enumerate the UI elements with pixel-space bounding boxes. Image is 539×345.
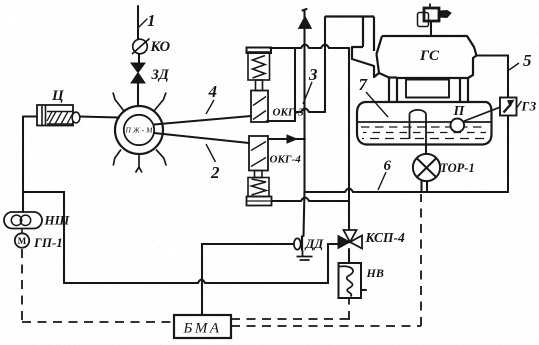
wire engine feed pipe — [324, 17, 326, 112]
leader 1 — [139, 19, 147, 27]
wire line B from OKG-4 base with hop — [272, 198, 349, 202]
wire OKG-4 outlet to vent line — [268, 138, 305, 140]
wire cylinder left port — [23, 115, 37, 117]
wire line A under TOR-1 with hop, up right side — [305, 189, 508, 193]
component tank 7 — [357, 102, 500, 145]
wire vertical to KSP-4 — [348, 48, 350, 230]
component igniter on engine — [418, 4, 452, 27]
component OKG-3 solenoid valve — [247, 48, 272, 123]
wire lower connector heater to OKG-4 — [154, 133, 249, 143]
wire TOR-1 bottom double stem — [422, 182, 428, 193]
wire stub to engine pipe with hop — [295, 109, 325, 113]
component DD pressure sensor — [294, 236, 313, 261]
tank pickup tube — [410, 110, 427, 144]
leader lines — [206, 63, 519, 190]
ground — [297, 251, 313, 261]
wire BMA riser and to DD — [202, 244, 294, 315]
component НШ gear pump — [4, 212, 42, 229]
wire upper connector heater to OKG-3 — [154, 116, 251, 125]
leader 3 — [303, 82, 312, 104]
wire vent line with top tick — [303, 9, 307, 236]
leader 5 — [509, 63, 519, 70]
leader 6 — [378, 172, 386, 190]
tank fuel level — [357, 121, 492, 123]
component БМА control box — [174, 315, 231, 338]
leader 7 — [366, 92, 388, 117]
engine mid rectangle — [406, 80, 449, 98]
component ГВ sensor box — [500, 98, 522, 116]
tank liquid dashes — [361, 126, 487, 128]
vent arrow — [300, 18, 311, 28]
wire OKG-3 bottom port — [267, 120, 295, 122]
wire dashed BMA to NV — [231, 298, 349, 320]
wire short vertical x295 — [294, 48, 296, 121]
engine intake chimney and boot — [325, 17, 374, 52]
component Ц cylinder — [37, 105, 80, 126]
component TOR-1 valve — [413, 154, 440, 181]
component ГП-1 motor — [15, 229, 29, 248]
wire left riser from cylinder to pump — [22, 117, 24, 212]
wire branch to bottom loop — [23, 192, 64, 283]
wire bottom run to KSP-4 with hop over BMA riser — [64, 244, 338, 283]
wire dashed GP-1 to BMA — [22, 249, 174, 322]
component КО check valve — [132, 39, 150, 55]
arrow on OKG-4 outlet — [288, 136, 296, 142]
wire supply line top (KO/ZD) — [138, 6, 139, 106]
component ЗД shutoff valve — [131, 63, 145, 83]
component KSP-4 three-way valve — [338, 230, 362, 249]
float П — [451, 119, 465, 133]
wire OKG-3 top to down pipe, hops at 305 and 325 — [270, 45, 349, 49]
wire KSP-4 to NV — [348, 249, 350, 263]
leader 2 — [206, 144, 216, 162]
wire right riser line 5 — [476, 56, 508, 193]
component engine ГС — [325, 17, 477, 102]
wire float to sensor — [463, 107, 500, 121]
heater rays — [113, 93, 124, 112]
wire tank to TOR-1 — [425, 144, 427, 154]
component OKG-4 solenoid valve — [247, 136, 272, 206]
leader 4 — [206, 100, 214, 114]
dashed control wires — [22, 194, 421, 326]
component heater ПЖД circle — [113, 93, 166, 173]
wire dashed BMA to TOR-1 — [231, 194, 421, 326]
wire cylinder rod to heater — [79, 117, 119, 118]
component NV heater — [339, 263, 362, 298]
wire igniter stem — [430, 21, 432, 36]
wire NV side stub — [361, 289, 366, 291]
